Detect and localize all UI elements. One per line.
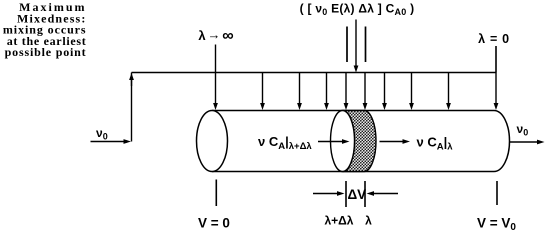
inlet v0 arrow: [91, 139, 132, 144]
side entry arrow 7: [409, 73, 414, 111]
lambda infinity entry arrow: [213, 45, 218, 111]
shaded volume slice dV: [331, 111, 377, 172]
side entry arrow 6: [382, 73, 387, 111]
side entry arrow 5: [363, 73, 368, 111]
side entry arrow 8: [446, 73, 451, 111]
cylinder left end ellipse: [197, 111, 228, 172]
side entry arrow 4: [344, 73, 349, 111]
side entry arrow 1: [260, 73, 265, 111]
svg-text:possible point: possible point: [5, 45, 87, 59]
feed stream right line: [365, 27, 367, 63]
side entry arrow 2: [297, 73, 302, 111]
caption: Maximum Mixedness description: [3, 0, 87, 59]
feed manifold line: [132, 72, 497, 74]
svg-text:λ+Δλ: λ+Δλ: [325, 214, 354, 228]
svg-text:V = 0: V = 0: [198, 215, 230, 230]
feed stream center arrow: [354, 20, 359, 73]
dV dimension left arrow: [313, 191, 345, 196]
dV right tick: [364, 181, 366, 207]
svg-text:∞: ∞: [222, 28, 233, 45]
svg-text:λ: λ: [198, 28, 206, 43]
side entry arrow 3: [324, 73, 329, 111]
dV left tick: [345, 181, 347, 207]
V=0 tick: [215, 180, 217, 207]
side entry arrow 9: [494, 73, 499, 111]
V=V0 tick: [496, 181, 498, 205]
dV dimension right arrow: [367, 191, 399, 196]
outlet v0 arrow: [510, 140, 545, 145]
lambda zero tick: [495, 46, 497, 73]
arrow out of slice: [380, 139, 411, 144]
inlet riser with up arrow: [129, 73, 134, 142]
feed stream left line: [346, 27, 348, 63]
svg-text:λ = 0: λ = 0: [478, 32, 510, 46]
svg-text:ΔV: ΔV: [347, 187, 366, 202]
arrow into slice: [318, 139, 350, 144]
svg-text:λ: λ: [365, 214, 372, 228]
svg-text:→: →: [208, 27, 221, 42]
reactor cylinder body: [212, 111, 510, 172]
